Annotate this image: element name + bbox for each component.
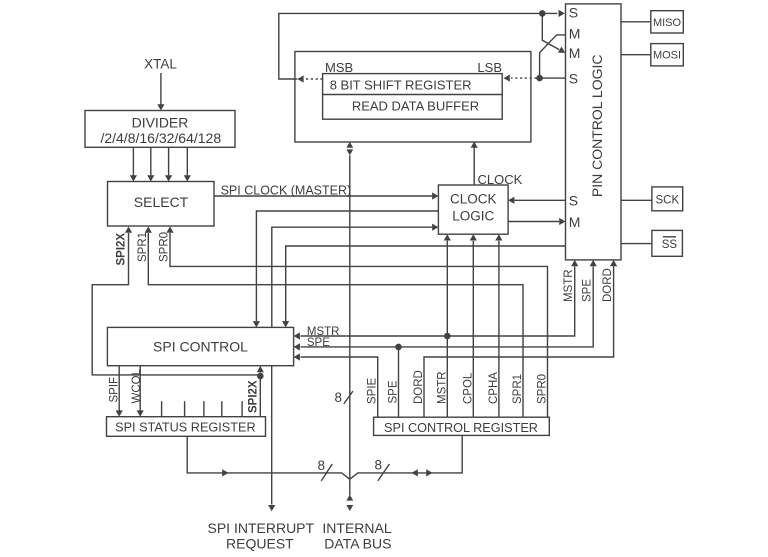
wire status register to data bus <box>187 436 350 479</box>
svg-text:SPE: SPE <box>388 380 400 403</box>
wire pin control to SS <box>621 243 652 245</box>
svg-text:MISO: MISO <box>653 17 682 29</box>
svg-text:M: M <box>569 26 581 42</box>
svg-text:LOGIC: LOGIC <box>452 209 494 224</box>
wire SPE bit vertical <box>398 347 400 417</box>
wire dotted arrow into MSB <box>297 75 322 82</box>
svg-text:S: S <box>569 193 578 209</box>
svg-text:MSTR: MSTR <box>436 371 448 404</box>
svg-text:REQUEST: REQUEST <box>226 536 294 552</box>
wire MSTR into clock logic bottom <box>444 234 451 336</box>
wire divider to select bit2 <box>147 147 154 181</box>
bus width slash bottom right <box>378 464 390 481</box>
shift register outer box <box>295 52 531 143</box>
wire pin control to MOSI <box>621 54 651 56</box>
bus width slash bottom left <box>321 464 332 481</box>
svg-text:SPI CLOCK (MASTER): SPI CLOCK (MASTER) <box>221 183 352 197</box>
node J2 (junction LSB wire) <box>536 75 543 82</box>
svg-text:8: 8 <box>334 390 342 405</box>
svg-text:MSB: MSB <box>325 60 353 75</box>
wire SPI control to clock logic <box>272 224 439 328</box>
svg-text:M: M <box>569 214 581 230</box>
svg-text:SPIF: SPIF <box>109 377 121 403</box>
svg-text:SPI2X: SPI2X <box>116 233 128 266</box>
select U2 (SELECT box) <box>108 182 215 227</box>
wire dotted arrow into LSB <box>504 75 537 82</box>
wire CPHA into clock logic bottom <box>495 234 502 417</box>
shift register U4 (8 BIT SHIFT REGISTER / READ DATA BUFFER) <box>323 74 503 120</box>
wire pin control to MISO <box>621 21 651 23</box>
svg-text:PIN CONTROL LOGIC: PIN CONTROL LOGIC <box>589 54 605 197</box>
wire internal data bus vertical <box>346 142 353 511</box>
svg-text:DORD: DORD <box>413 370 425 404</box>
wire pin control SS row to SPI control <box>282 246 565 327</box>
node J4 (junction SPE) <box>395 344 402 351</box>
svg-text:SPR1: SPR1 <box>137 232 149 262</box>
wire pin control to SCK <box>621 199 652 201</box>
svg-text:INTERNAL: INTERNAL <box>322 520 391 536</box>
control register U8 (SPI CONTROL REGISTER box) <box>374 417 550 435</box>
wire pin control M (row 2) crossover to LSB net <box>540 35 566 78</box>
wire MSTR net <box>294 260 579 340</box>
wire SPIF to status register <box>116 366 123 417</box>
svg-text:SPI CONTROL: SPI CONTROL <box>153 338 248 354</box>
svg-text:MSTR: MSTR <box>563 269 575 302</box>
wire WCOL to status register <box>137 366 144 417</box>
svg-text:LSB: LSB <box>477 60 502 75</box>
svg-text:DATA BUS: DATA BUS <box>324 536 391 552</box>
status register bit ticks <box>162 401 243 417</box>
bus width slash top <box>344 391 353 404</box>
wire CLOCK clock logic to shift register <box>471 142 478 186</box>
svg-text:CPOL: CPOL <box>462 372 474 404</box>
svg-text:S: S <box>569 71 578 87</box>
wire CPOL into clock logic bottom <box>470 234 477 417</box>
svg-text:8: 8 <box>374 458 382 473</box>
status register U7 (SPI STATUS REGISTER box) <box>107 417 266 437</box>
svg-text:S: S <box>569 4 578 20</box>
node J5 (junction SPI2X) <box>257 373 264 380</box>
wire MSTR bit vertical <box>446 336 448 417</box>
wire SPI interrupt request <box>268 366 275 512</box>
node J3 (junction MSTR) <box>444 333 451 340</box>
svg-text:CPHA: CPHA <box>488 372 500 404</box>
svg-text:SPR0: SPR0 <box>537 374 549 404</box>
svg-text:SPIE: SPIE <box>367 377 379 404</box>
wire SPIE net <box>294 353 378 417</box>
spi control U6 (SPI CONTROL box) <box>107 327 293 365</box>
wire clock logic M to pin control <box>508 218 565 225</box>
svg-text:DORD: DORD <box>602 268 614 302</box>
svg-text:CLOCK: CLOCK <box>478 172 523 187</box>
svg-text:SPR1: SPR1 <box>512 374 524 404</box>
svg-text:DIVIDER: DIVIDER <box>132 115 189 131</box>
svg-text:8: 8 <box>317 458 325 473</box>
wire SPI2X into select <box>92 227 260 375</box>
svg-text:8 BIT SHIFT REGISTER: 8 BIT SHIFT REGISTER <box>330 78 472 93</box>
wire divider to select bit3 <box>165 147 172 181</box>
node J1 (junction top wire) <box>539 10 546 17</box>
label CLOCK LOGIC <box>450 192 497 224</box>
svg-text:SPI STATUS REGISTER: SPI STATUS REGISTER <box>115 420 256 434</box>
wire XTAL to divider <box>157 73 164 111</box>
wire DORD net <box>424 260 617 417</box>
pin control U5 (PIN CONTROL LOGIC box) <box>566 4 622 260</box>
wire control register to data bus <box>350 435 462 479</box>
port MISO box <box>651 11 684 33</box>
svg-text:SPI2X: SPI2X <box>248 380 260 413</box>
port MOSI box <box>651 44 684 66</box>
svg-text:SPI CONTROL REGISTER: SPI CONTROL REGISTER <box>384 421 538 435</box>
wire divider to select bit4 <box>184 147 191 181</box>
label INTERNAL DATA BUS <box>322 520 391 552</box>
svg-text:M: M <box>569 45 581 61</box>
wire SPR1 select to control register <box>145 227 523 418</box>
svg-text:SELECT: SELECT <box>134 194 189 210</box>
port SS box <box>652 230 683 256</box>
wire SPE net <box>294 260 597 351</box>
svg-text:SCK: SCK <box>655 194 679 206</box>
svg-text:/2/4/8/16/32/64/128: /2/4/8/16/32/64/128 <box>100 130 221 146</box>
overline on SS <box>663 236 676 238</box>
label SPI INTERRUPT REQUEST <box>208 520 315 552</box>
wire divider to select bit1 <box>130 147 137 181</box>
svg-text:SPI INTERRUPT: SPI INTERRUPT <box>208 520 315 536</box>
wire SPI CLOCK (MASTER) select to clock logic <box>214 192 438 199</box>
divider U1 (DIVIDER /2/4/8/16/32/64/128) <box>85 111 235 148</box>
svg-text:WCOL: WCOL <box>131 368 143 403</box>
svg-text:SPR0: SPR0 <box>159 232 171 262</box>
svg-text:SPE: SPE <box>582 279 594 302</box>
wire MSB net from top <box>279 10 565 79</box>
wire junction to pin control S (row 4) <box>540 77 566 79</box>
svg-text:MSTR: MSTR <box>307 326 340 338</box>
svg-text:SS: SS <box>662 239 678 251</box>
svg-text:SPE: SPE <box>307 337 330 349</box>
wire pin control S to clock logic <box>508 197 565 204</box>
wire SPI2X status bit net <box>257 366 264 417</box>
svg-text:XTAL: XTAL <box>144 57 177 72</box>
port SCK box <box>652 187 683 211</box>
svg-text:READ DATA BUFFER: READ DATA BUFFER <box>352 99 479 114</box>
wire clock logic to SPI control <box>253 211 439 327</box>
svg-text:CLOCK: CLOCK <box>450 192 497 207</box>
wire crossover to pin control M (row 3) <box>542 13 565 52</box>
wire SPR0 select to control register <box>166 227 547 418</box>
svg-text:MOSI: MOSI <box>653 50 681 62</box>
clock logic U3 (CLOCK LOGIC box) <box>438 185 508 234</box>
